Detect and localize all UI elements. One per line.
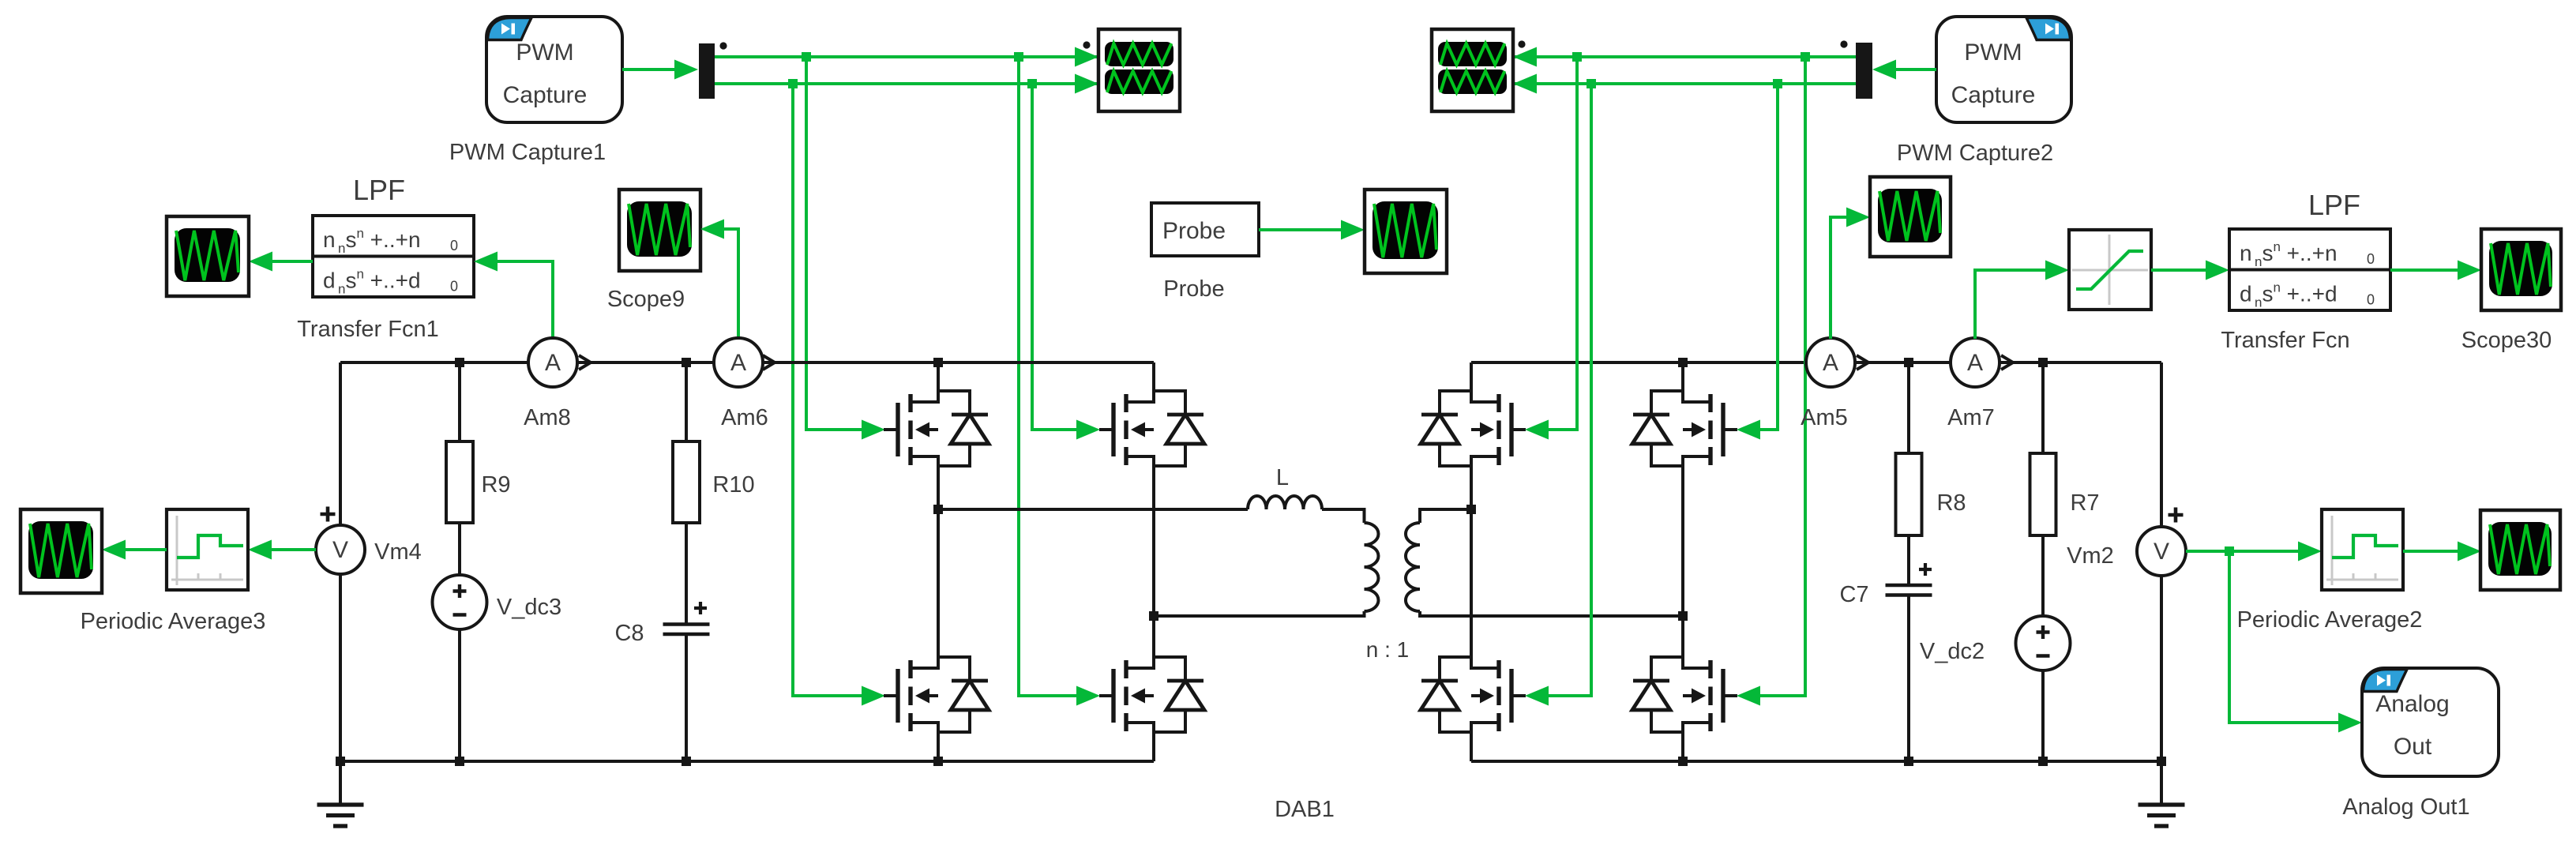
wire bridge2 leg2 upper stub (1681, 362, 1684, 391)
wire R7 to V_dc2 (2041, 535, 2045, 616)
transformer primary winding (1365, 523, 1379, 611)
arrow into Scope27 (1341, 220, 1365, 240)
voltage source V_dc3 (433, 575, 487, 629)
junction bridge2 leg2 bottom (1678, 757, 1688, 766)
junction bridge1 leg1 top (933, 358, 943, 367)
junction R9 top (455, 358, 464, 367)
wire Probe to Scope27 (1259, 228, 1342, 231)
svg-text:A: A (545, 350, 561, 376)
scope Scope30 (2481, 229, 2561, 310)
arrow into Analog Out1 (2338, 713, 2362, 733)
wire Periodic Average2 to Scope29 (2403, 550, 2459, 553)
wire gate drive Q4 (1019, 57, 1078, 696)
block Probe (1151, 203, 1259, 256)
junction C7 bottom (1904, 757, 1913, 766)
svg-text:V_dc2: V_dc2 (1920, 639, 1985, 664)
wire Transfer Fcn1 to Scope8 (271, 260, 313, 263)
wire gate drive Q1 (806, 57, 863, 430)
junction pwm2 ch1 gate Q6 (1801, 52, 1810, 62)
svg-text:Scope9: Scope9 (607, 287, 685, 312)
junction ground right (2157, 757, 2166, 766)
arrow into demux Mux2 (1872, 60, 1896, 80)
inductor L (1248, 496, 1322, 509)
wire R7 branch upper (2041, 362, 2045, 453)
ammeter Am5 (1806, 338, 1855, 387)
transistor Q5 (MOSFET with diode) (1421, 391, 1526, 466)
junction pwm1 ch2 gate Q3 (788, 79, 798, 88)
arrow gate Q3 (862, 686, 885, 706)
resistor R10 (673, 441, 700, 523)
wire inductor to transformer primary (1322, 509, 1365, 523)
ammeter Am7 (1951, 338, 2000, 387)
wire gate drive Q3 (793, 84, 863, 696)
svg-text:0: 0 (450, 238, 458, 253)
transistor Q1 (MOSFET with diode) (884, 391, 989, 466)
wire Am6 to Scope9 (723, 229, 738, 339)
voltmeter Vm4 (316, 525, 365, 574)
wire bridge1 leg2 upper stub (1152, 362, 1155, 391)
wire C8 to bottom rail (685, 634, 688, 761)
scope Scope9 (619, 190, 700, 271)
wire pwm1 channel2 (715, 82, 1098, 85)
subsystem block PWM Capture2 (1936, 17, 2071, 122)
transistor Q4 (MOSFET with diode) (1099, 657, 1204, 732)
index dot Mux2 (1840, 40, 1847, 47)
wire transformer secondary bottom to bridge2 midpoint B (1420, 611, 1683, 616)
wire bridge2 leg2 lower stub (1681, 732, 1684, 761)
junction R8 top (1904, 358, 1913, 367)
svg-text:V_dc3: V_dc3 (497, 595, 561, 620)
svg-text:LPF: LPF (353, 174, 405, 206)
wire Am8 to Transfer Fcn1 (496, 261, 553, 339)
junction C8 bottom (682, 757, 691, 766)
wire Vm2 to Periodic Average2 (2186, 550, 2300, 553)
arrow into Scope9 (700, 220, 724, 239)
wire pwm2 channel1 (1513, 55, 1856, 58)
junction pwm2 ch2 gate Q8 (1773, 79, 1782, 88)
capacitor C7 (1886, 585, 1932, 595)
junction V_dc2 bottom (2038, 757, 2048, 766)
arrow into Scope PWM2 ch2 (1513, 74, 1537, 94)
junction bridge2 midpoint B (1678, 611, 1688, 621)
wire Vm2 branch upper (2160, 362, 2163, 527)
arrow into Scope7 (102, 540, 126, 560)
ground right (2139, 805, 2185, 826)
saturation block Saturation (2069, 230, 2151, 310)
svg-text:R9: R9 (481, 472, 510, 498)
wire R10 to C8 (685, 523, 688, 624)
wire gate drive Q7 (1547, 84, 1591, 696)
junction V_dc3 bottom (455, 757, 464, 766)
junction Analog Out branch (2225, 546, 2234, 556)
wire bottom rail right (1471, 760, 2161, 763)
junction R10 top (682, 358, 691, 367)
plus sign C7 (1919, 563, 1932, 576)
wire Am7 to Saturation (1975, 270, 2047, 339)
svg-text:PWM Capture1: PWM Capture1 (449, 140, 606, 165)
wire transformer primary bottom to bridge1 midpoint B (1154, 611, 1365, 616)
svg-text:Out: Out (2394, 734, 2432, 760)
svg-text:Periodic Average3: Periodic Average3 (81, 609, 266, 634)
block Periodic Average2 (2322, 509, 2403, 590)
svg-text:C8: C8 (614, 621, 644, 646)
subsystem block PWM Capture1 (486, 17, 622, 122)
svg-text:n : 1: n : 1 (1366, 637, 1409, 662)
svg-text:R7: R7 (2070, 490, 2099, 516)
arrow into Scope30 (2458, 261, 2481, 280)
wire to Analog Out1 (2229, 551, 2340, 723)
ammeter Am8 (528, 338, 577, 387)
index dot Scope PWM2 (1518, 40, 1525, 47)
arrow gate Q2 (1076, 420, 1100, 440)
wire V_dc3 to bottom rail (458, 629, 461, 761)
transfer function block Transfer Fcn1 (313, 216, 474, 297)
wire Am8 to Am6 (577, 361, 714, 364)
arrow into Saturation (2045, 261, 2069, 280)
arrow into Scope PWM2 ch1 (1513, 47, 1537, 67)
arrow into demux Mux1 (674, 60, 698, 80)
wire Transfer Fcn to Scope30 (2390, 269, 2459, 272)
svg-text:Capture: Capture (1951, 82, 2036, 108)
junction pwm1 ch1 gate Q4 (1014, 52, 1023, 62)
wire PWM Capture1 output (622, 68, 676, 71)
svg-text:L: L (1276, 465, 1289, 490)
wire Vm2 branch lower (2160, 576, 2163, 761)
wire R8 to C7 (1907, 535, 1910, 585)
current arrow after Am8 (579, 355, 591, 370)
svg-text:DAB1: DAB1 (1275, 797, 1335, 822)
wire Vm4 branch upper (339, 362, 342, 525)
svg-text:Vm2: Vm2 (2067, 543, 2114, 569)
wire gate drive Q6 (1759, 84, 1778, 430)
svg-text:LPF: LPF (2308, 189, 2360, 221)
svg-text:Am8: Am8 (524, 405, 571, 430)
svg-text:0: 0 (450, 278, 458, 294)
wire bridge2 leg1 middle (1470, 466, 1473, 657)
wire Am5 to Scope28 (1831, 217, 1848, 339)
junction bridge2 leg2 top (1678, 358, 1688, 367)
wire bridge2 leg1 lower stub (1470, 732, 1473, 761)
resistor R7 (2030, 453, 2056, 535)
resistor R9 (446, 441, 473, 523)
wire Vm4 branch lower (339, 574, 342, 761)
wire pwm1 channel1 (715, 55, 1098, 58)
scope Scope28 (1870, 177, 1951, 257)
svg-text:Analog Out1: Analog Out1 (2342, 794, 2469, 820)
block Periodic Average3 (167, 509, 248, 590)
svg-text:Probe: Probe (1163, 276, 1224, 302)
current arrow after Am5 (1857, 355, 1868, 370)
arrow into Scope28 (1846, 208, 1870, 227)
demux Mux2 (1856, 43, 1872, 99)
wire bridge1 midpoint A to inductor (938, 508, 1248, 511)
wire bridge2 top rail (1471, 361, 1806, 364)
scope Scope PWM1 (2 channel) (1098, 29, 1180, 111)
wire V_dc2 to bottom rail (2041, 670, 2045, 761)
svg-text:Vm4: Vm4 (374, 539, 422, 565)
transistor Q2 (MOSFET with diode) (1099, 391, 1204, 466)
arrow into Transfer Fcn (2206, 261, 2229, 280)
ground left (317, 805, 364, 826)
transistor Q3 (MOSFET with diode) (884, 657, 989, 732)
wire R8 branch upper (1907, 362, 1910, 453)
svg-text:V: V (2154, 539, 2169, 565)
wire R9 to V_dc3 (458, 523, 461, 575)
scope Scope8 (167, 216, 249, 296)
scope Scope29 (2480, 510, 2560, 590)
wire bridge2 leg2 middle (1681, 466, 1684, 657)
svg-text:Am7: Am7 (1947, 405, 1995, 430)
svg-text:PWM Capture2: PWM Capture2 (1897, 141, 2053, 166)
transistor Q8 (MOSFET with diode) (1632, 657, 1737, 732)
plus sign C8 (694, 602, 707, 614)
current arrow after Am6 (763, 355, 775, 370)
svg-text:Transfer Fcn: Transfer Fcn (2221, 328, 2349, 353)
wire PWM Capture2 output (1894, 68, 1936, 71)
wire C7 to bottom rail (1907, 595, 1910, 761)
junction R7 top (2038, 358, 2048, 367)
transistor Q7 (MOSFET with diode) (1421, 657, 1526, 732)
junction bridge1 leg1 bottom (933, 757, 943, 766)
wire bridge1 leg2 lower stub (1152, 732, 1155, 761)
wire main rail left segment (340, 361, 528, 364)
wire transformer secondary top to bridge2 leg1 (1420, 509, 1471, 523)
arrow into Periodic Average3 (248, 540, 272, 560)
junction pwm2 ch2 gate Q7 (1587, 79, 1596, 88)
plus sign Vm4 (321, 507, 336, 522)
index dot Mux1 (719, 42, 727, 49)
svg-text:Transfer Fcn1: Transfer Fcn1 (297, 317, 438, 342)
wire ground stub right (2160, 761, 2163, 805)
svg-text:Probe: Probe (1162, 218, 1226, 244)
svg-text:0: 0 (2367, 291, 2375, 307)
wire pwm2 channel2 (1513, 82, 1856, 85)
arrow into Transfer Fcn1 (474, 252, 498, 272)
svg-text:A: A (1967, 350, 1983, 376)
arrow gate Q5 (1525, 420, 1549, 440)
junction bridge1 midpoint B (1149, 611, 1158, 621)
svg-text:R8: R8 (1936, 490, 1966, 516)
wire bridge1 leg1 middle (937, 466, 940, 657)
arrow into Scope29 (2458, 542, 2481, 561)
voltmeter Vm2 (2137, 527, 2186, 576)
svg-text:PWM: PWM (516, 39, 573, 66)
svg-text:Analog: Analog (2375, 691, 2449, 717)
demux Mux1 (699, 43, 715, 99)
scope Scope7 (21, 509, 102, 593)
wire Am6 to bridge top rail (763, 361, 1154, 364)
voltage source V_dc2 (2016, 616, 2071, 670)
arrow gate Q6 (1737, 420, 1760, 440)
wire gate drive Q5 (1547, 57, 1577, 430)
svg-text:C7: C7 (1839, 582, 1868, 607)
junction bridge2 midpoint A (1466, 505, 1476, 514)
index dot Scope PWM1 (1083, 41, 1090, 48)
transistor Q6 (MOSFET with diode) (1632, 391, 1737, 466)
wire gate drive Q2 (1032, 84, 1078, 430)
capacitor C8 (663, 625, 710, 635)
arrow gate Q8 (1737, 686, 1760, 706)
svg-text:Am6: Am6 (721, 405, 768, 430)
wire R9 branch upper (458, 362, 461, 441)
svg-text:R10: R10 (712, 472, 754, 498)
arrow into Scope8 (249, 252, 272, 272)
svg-text:0: 0 (2367, 251, 2375, 267)
junction pwm1 ch1 gate Q1 (802, 52, 811, 62)
junction pwm2 ch1 gate Q5 (1572, 52, 1582, 62)
arrow gate Q4 (1076, 686, 1100, 706)
plus sign Vm2 (2169, 508, 2184, 523)
wire ground stub left (339, 761, 342, 805)
transformer secondary winding (1406, 523, 1420, 611)
wire Saturation to Transfer Fcn (2151, 269, 2207, 272)
svg-text:Am5: Am5 (1801, 405, 1848, 430)
svg-text:V: V (332, 537, 348, 563)
svg-text:A: A (730, 350, 746, 376)
scope Scope PWM2 (2 channel) (1432, 29, 1513, 111)
junction ground left (336, 757, 345, 766)
subsystem block Analog Out1 (2362, 668, 2499, 776)
junction pwm1 ch2 gate Q2 (1027, 79, 1037, 88)
ammeter Am6 (714, 338, 763, 387)
arrow into Scope PWM1 ch1 (1075, 47, 1098, 67)
wire bottom rail left (340, 760, 1154, 763)
scope Scope27 (1365, 190, 1447, 273)
wire bridge1 leg1 upper stub (937, 362, 940, 391)
junction bridge1 midpoint A (933, 505, 943, 514)
arrow into Periodic Average2 (2298, 542, 2322, 561)
wire Vm4 to Periodic Average3 (270, 548, 316, 551)
svg-text:Scope30: Scope30 (2461, 328, 2552, 353)
svg-text:PWM: PWM (1964, 39, 2022, 66)
resistor R8 (1896, 453, 1922, 535)
svg-text:Periodic Average2: Periodic Average2 (2237, 607, 2423, 633)
wire bridge2 leg1 upper stub (1470, 362, 1473, 391)
current arrow after Am7 (2001, 355, 2013, 370)
wire Am5 to Am7 (1855, 361, 1951, 364)
wire bridge1 leg2 middle (1152, 466, 1155, 657)
svg-text:A: A (1823, 350, 1838, 376)
arrow gate Q1 (862, 420, 885, 440)
transfer function block Transfer Fcn (2229, 229, 2390, 310)
wire Am7 to Vm2 corner (2000, 361, 2161, 364)
arrow gate Q7 (1525, 686, 1549, 706)
arrow into Scope PWM1 ch2 (1075, 74, 1098, 94)
wire Periodic Average3 to Scope7 (124, 548, 167, 551)
wire R10 branch upper (685, 362, 688, 441)
wire bridge1 leg1 lower stub (937, 732, 940, 761)
wire gate drive Q8 (1759, 57, 1805, 696)
svg-text:Capture: Capture (503, 82, 588, 108)
